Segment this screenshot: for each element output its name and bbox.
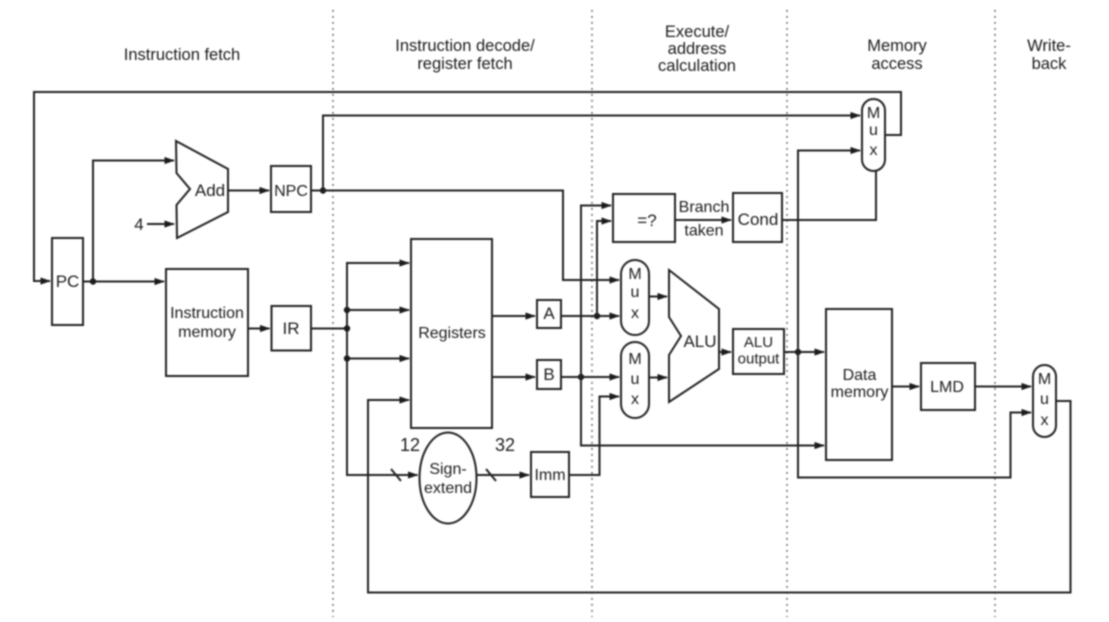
wire zero-test to Cond — [675, 219, 731, 221]
wire B to Mux2 input 1 — [561, 376, 619, 378]
svg-text:Instruction decode/: Instruction decode/ — [395, 37, 535, 55]
wire ALU output to Data memory — [784, 351, 824, 353]
mux Mux2 — [621, 342, 649, 418]
node B junction — [578, 374, 584, 380]
wire constant 4 to Add — [147, 223, 174, 225]
register LMD — [921, 363, 975, 410]
svg-text:u: u — [631, 371, 640, 388]
wire LMD to WB Mux input 1 — [975, 386, 1031, 388]
wire Mux2 to ALU — [649, 377, 667, 379]
svg-text:Imm: Imm — [534, 467, 565, 484]
svg-text:extend: extend — [424, 480, 472, 497]
wire Imm to Mux2 input 2 — [569, 397, 619, 476]
box Registers — [411, 239, 492, 428]
svg-text:Instruction: Instruction — [170, 305, 244, 322]
wire ALU output to WB Mux input 2 — [798, 352, 1031, 478]
svg-text:ALU: ALU — [744, 334, 773, 351]
wire Registers to B — [492, 376, 535, 378]
svg-text:Memory: Memory — [867, 37, 927, 55]
svg-text:register fetch: register fetch — [417, 55, 512, 73]
svg-text:Cond: Cond — [738, 210, 779, 229]
mux WB Mux — [1033, 365, 1056, 437]
svg-text:IR: IR — [283, 319, 300, 338]
svg-text:M: M — [1038, 371, 1051, 388]
register Imm — [531, 452, 569, 497]
svg-text:LMD: LMD — [930, 379, 964, 396]
mux Mux1 — [621, 260, 649, 335]
wire Cond to top Mux select — [782, 171, 876, 220]
comparator zero-test — [613, 194, 675, 242]
svg-text:Sign-: Sign- — [429, 461, 466, 478]
svg-text:32: 32 — [495, 435, 515, 455]
wire ALU to ALU output — [719, 351, 731, 353]
stage divider EX — [591, 10, 593, 617]
wire NPC to Mux1 input 1 — [311, 191, 619, 281]
svg-text:u: u — [1040, 391, 1049, 408]
node ALU output junction — [795, 349, 801, 355]
wire B to Data memory store input — [581, 377, 824, 446]
svg-text:x: x — [1041, 412, 1049, 429]
svg-text:x: x — [631, 391, 639, 408]
wire mux-to-PC feedback — [34, 92, 901, 281]
svg-text:x: x — [631, 305, 639, 322]
wire IR fan-out vertical — [311, 263, 409, 329]
svg-text:ALU: ALU — [683, 332, 716, 351]
wire Data memory to LMD — [892, 386, 919, 388]
svg-text:u: u — [869, 122, 878, 139]
register IR — [272, 306, 312, 351]
stage divider MEM — [786, 10, 788, 617]
wire B to zero-test — [581, 206, 611, 378]
svg-text:taken: taken — [684, 223, 723, 240]
wire ALU output to top Mux input 2 — [798, 151, 860, 353]
svg-text:Instruction fetch: Instruction fetch — [124, 46, 240, 64]
slash bus width 32 — [486, 469, 496, 481]
adder Add — [176, 141, 228, 238]
svg-text:Registers: Registers — [418, 325, 486, 342]
svg-text:u: u — [631, 284, 640, 301]
svg-text:M: M — [628, 351, 641, 368]
wire A to zero-test — [597, 221, 611, 316]
wire Sign-extend to Imm — [477, 474, 530, 476]
svg-text:M: M — [867, 105, 880, 122]
wire WB Mux to Registers write port — [368, 400, 1071, 593]
wire Instruction memory to IR — [248, 328, 270, 330]
svg-text:address: address — [668, 40, 727, 58]
box Instruction memory — [166, 269, 248, 376]
register ALU output — [733, 329, 784, 374]
wire A to Mux1 input 2 — [561, 315, 619, 317]
svg-text:Branch: Branch — [679, 199, 730, 216]
svg-text:NPC: NPC — [274, 183, 308, 200]
node IR junction 3 — [344, 355, 350, 361]
node A junction — [594, 313, 600, 319]
svg-text:M: M — [628, 266, 641, 283]
svg-text:12: 12 — [400, 435, 420, 455]
svg-text:memory: memory — [831, 384, 889, 401]
register Cond — [733, 193, 782, 242]
register A — [537, 300, 561, 328]
svg-text:access: access — [871, 55, 922, 73]
box Data memory — [826, 309, 892, 460]
svg-text:A: A — [543, 304, 555, 323]
wire IR to Registers input 2 — [347, 309, 409, 311]
node PC output junction — [90, 278, 96, 284]
svg-text:Write-: Write- — [1027, 37, 1071, 55]
slash bus width 12 — [391, 469, 401, 481]
svg-text:Data: Data — [843, 367, 877, 384]
node NPC output junction — [320, 187, 326, 193]
svg-text:memory: memory — [178, 324, 236, 341]
svg-text:=?: =? — [637, 211, 656, 230]
svg-text:back: back — [1032, 55, 1068, 73]
wire Mux1 to ALU — [649, 296, 667, 298]
svg-text:Execute/: Execute/ — [665, 23, 730, 41]
node IR junction 2 — [344, 325, 350, 331]
stage divider WB — [994, 10, 996, 617]
alu ALU — [669, 270, 719, 402]
svg-text:x: x — [870, 142, 878, 159]
wire NPC to top Mux input 1 — [323, 116, 860, 191]
svg-text:calculation: calculation — [658, 57, 736, 75]
wire IR to Sign-extend — [347, 359, 418, 476]
stage divider ID/IF — [332, 10, 334, 617]
svg-text:PC: PC — [56, 272, 80, 291]
register B — [537, 360, 561, 389]
wire PC to Instruction memory — [83, 281, 164, 283]
wire Add to NPC — [228, 190, 269, 192]
register NPC — [271, 166, 311, 212]
svg-text:output: output — [738, 351, 781, 368]
svg-text:B: B — [543, 365, 554, 384]
svg-text:4: 4 — [134, 215, 143, 234]
wire Registers to A — [492, 315, 535, 317]
register PC — [52, 238, 83, 325]
unit Sign-extend — [420, 433, 477, 524]
svg-text:Add: Add — [195, 181, 225, 200]
mux top branch Mux — [862, 99, 885, 171]
wire IR to Registers input 3 — [347, 263, 409, 359]
node IR junction 1 — [344, 307, 350, 313]
wire PC to Add — [93, 161, 174, 282]
